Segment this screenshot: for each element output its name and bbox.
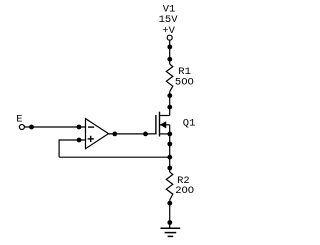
node: R1 top pin — [167, 57, 172, 62]
node: inverting input pin — [77, 125, 82, 130]
power terminal V1 — [167, 35, 172, 40]
svg-text:E: E — [16, 113, 22, 125]
wire: op-amp output to Q1 gate — [109, 133, 156, 135]
terminal E (input) — [19, 125, 24, 130]
node: R1 bottom pin — [167, 93, 172, 98]
node: Q1 gate pin — [143, 132, 148, 137]
svg-text:+V: +V — [162, 25, 175, 37]
svg-text:Q1: Q1 — [183, 118, 196, 130]
node: ground pin — [167, 220, 172, 225]
svg-text:2OO: 2OO — [175, 185, 194, 197]
wire: feedback vertical — [58, 139, 60, 157]
resistor R2 — [166, 172, 173, 200]
ground — [161, 228, 181, 236]
wire: R2 bottom to ground — [169, 200, 171, 228]
node: non-inverting input pin — [77, 138, 82, 143]
wire: V1 to R1 top — [169, 40, 171, 64]
node: V1 pin — [167, 45, 172, 50]
wire: R1 bottom to Q1 drain — [169, 92, 171, 116]
op-amp U1 — [86, 119, 109, 149]
wire: Q1 source to R2 top — [169, 134, 171, 172]
node: op-amp output pin — [112, 132, 117, 137]
node: source wire junction — [167, 142, 172, 147]
node: Q1 source pin — [167, 132, 172, 137]
node: R2 bottom pin — [167, 201, 172, 206]
node: R2 top pin — [167, 166, 172, 171]
node: Q1 drain pin — [167, 105, 172, 110]
wire: non-inverting input stub — [59, 139, 85, 141]
resistor R1 — [166, 64, 173, 92]
transistor Q1 (n-channel MOSFET) — [156, 112, 170, 137]
wire: E terminal to op-amp inverting input — [24, 126, 85, 128]
wire: feedback horizontal to source node — [59, 156, 170, 158]
node: E pin junction — [29, 125, 34, 130]
node: feedback junction — [167, 155, 172, 160]
svg-text:5OO: 5OO — [175, 76, 194, 88]
